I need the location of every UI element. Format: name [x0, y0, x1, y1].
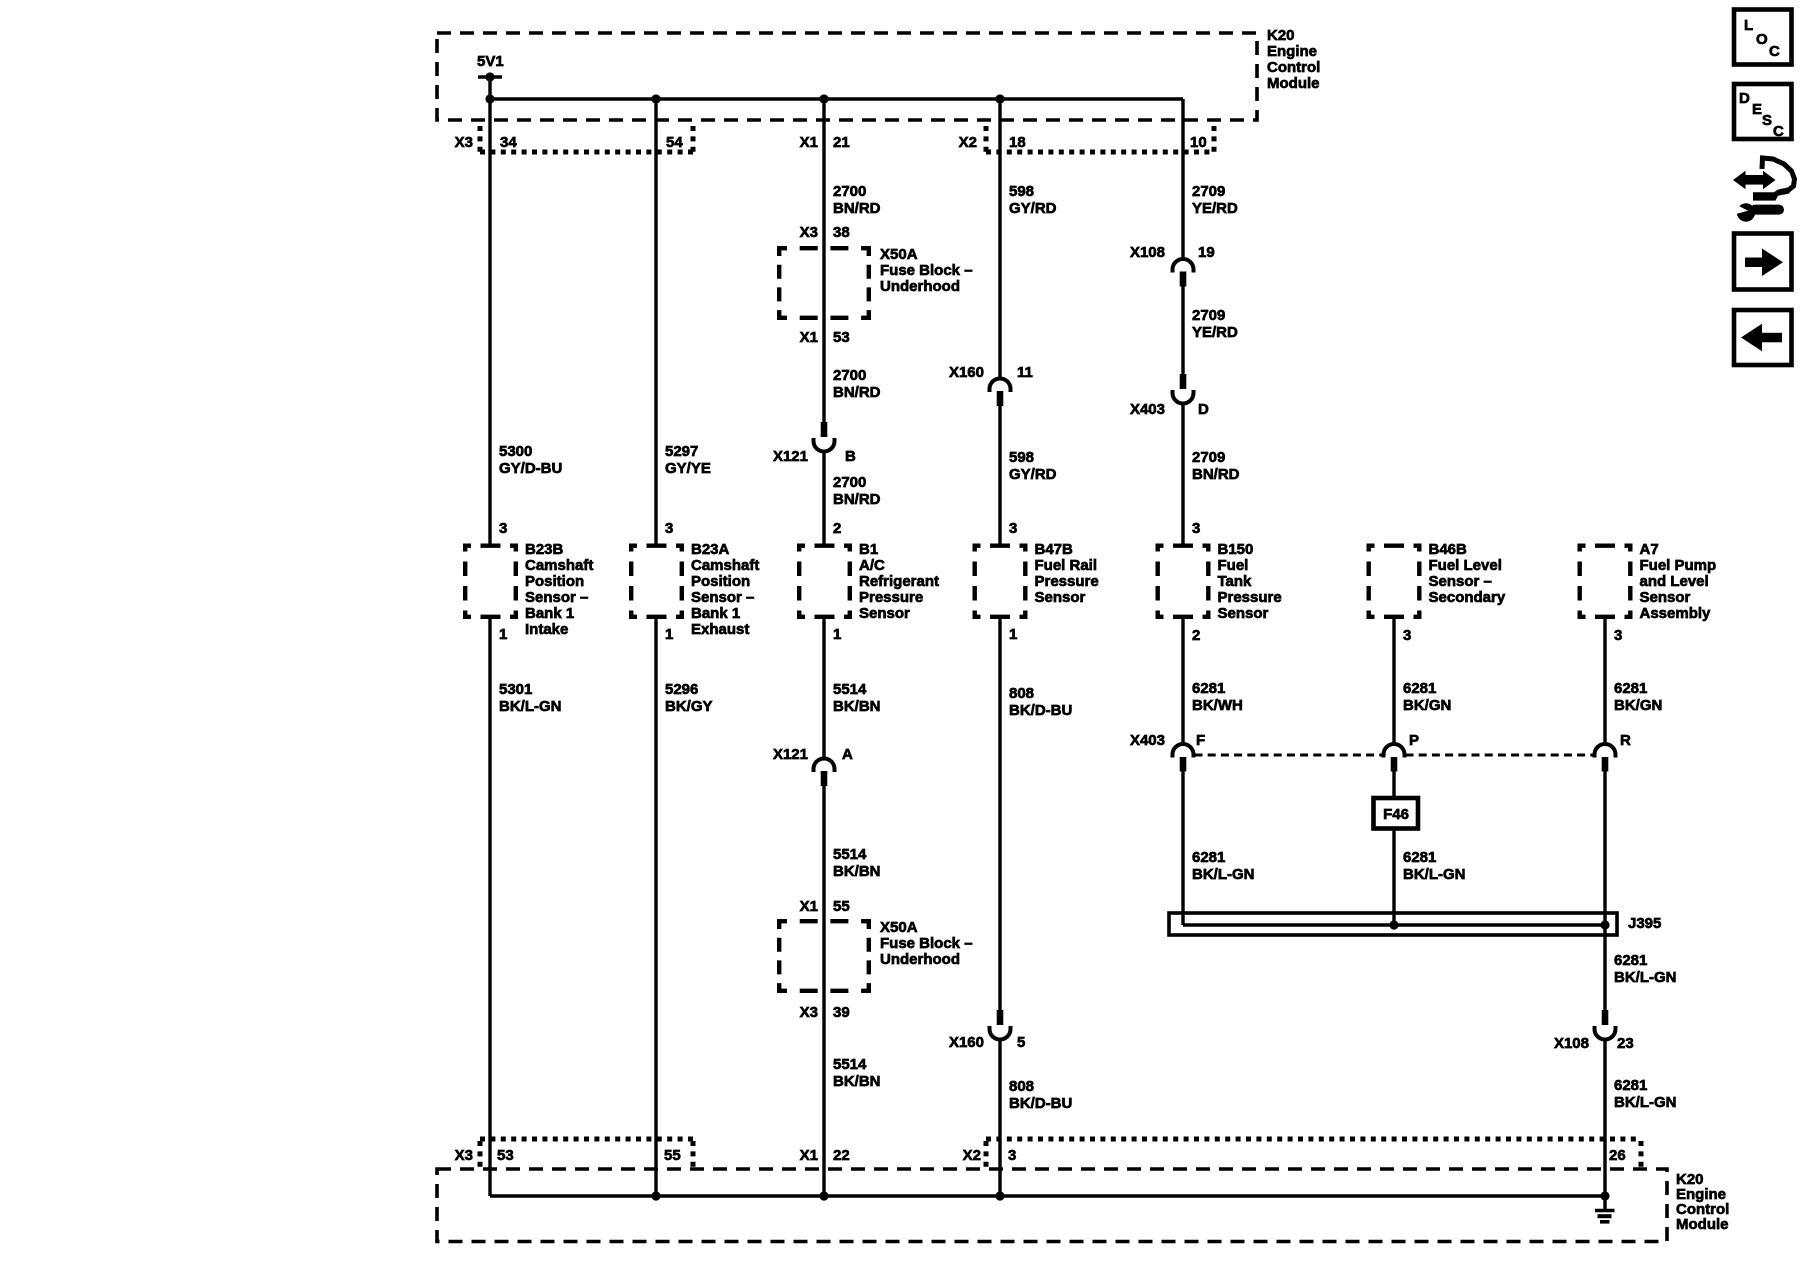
- svg-text:2709: 2709: [1192, 449, 1225, 466]
- svg-text:D: D: [1198, 401, 1209, 418]
- svg-text:23: 23: [1617, 1035, 1634, 1052]
- svg-text:39: 39: [833, 1004, 850, 1021]
- svg-text:5300: 5300: [499, 443, 532, 460]
- wire 3: circuit 5514 BK/BN (X121-A to X50A fuse block): [800, 786, 881, 919]
- svg-text:Bank 1: Bank 1: [691, 605, 740, 622]
- icon DESC button: [1734, 84, 1792, 140]
- svg-text:X160: X160: [949, 1034, 984, 1051]
- sensor B1 A/C refrigerant pressure sensor: [797, 541, 939, 622]
- svg-text:X3: X3: [455, 134, 473, 151]
- svg-text:Exhaust: Exhaust: [691, 621, 749, 638]
- connector X2 pin box (top row, pins 18 / 10): [959, 126, 1214, 152]
- svg-text:Underhood: Underhood: [880, 951, 960, 968]
- svg-text:Intake: Intake: [525, 621, 568, 638]
- svg-text:22: 22: [833, 1147, 850, 1164]
- svg-text:O: O: [1756, 31, 1768, 48]
- svg-text:BK/BN: BK/BN: [833, 698, 881, 715]
- wire 6: segment X403-P to fuse F46: [1392, 771, 1395, 798]
- svg-text:598: 598: [1009, 183, 1034, 200]
- svg-text:X2: X2: [959, 134, 977, 151]
- svg-text:GY/D-BU: GY/D-BU: [499, 460, 562, 477]
- wire 3 lower: circuit 5514 BK/BN (B1 pin 1 to X121-A): [824, 619, 881, 759]
- svg-text:3: 3: [1403, 627, 1411, 644]
- svg-text:6281: 6281: [1403, 849, 1436, 866]
- fuse block X50A - underhood (upper): [777, 246, 973, 401]
- connector X1 pin 21 (top row): [800, 134, 850, 151]
- svg-text:GY/YE: GY/YE: [665, 460, 711, 477]
- svg-text:X403: X403: [1130, 401, 1165, 418]
- svg-text:B: B: [845, 448, 856, 465]
- junction at wire 1: [485, 94, 494, 103]
- junction at wire 7 (bottom): [1600, 1191, 1609, 1200]
- svg-text:2700: 2700: [833, 367, 866, 384]
- svg-text:34: 34: [500, 134, 517, 151]
- svg-text:18: 18: [1009, 134, 1026, 151]
- in-line connector X403 pin F: [1130, 732, 1205, 772]
- svg-text:F: F: [1196, 732, 1205, 749]
- ground: [1595, 1196, 1615, 1222]
- dashed harness link X403 F-P: [1195, 754, 1383, 757]
- svg-text:Fuel Level: Fuel Level: [1429, 557, 1502, 574]
- svg-text:X121: X121: [773, 746, 808, 763]
- svg-text:B1: B1: [859, 541, 878, 558]
- svg-text:6281: 6281: [1614, 1077, 1647, 1094]
- svg-text:54: 54: [666, 134, 683, 151]
- svg-text:808: 808: [1009, 1078, 1034, 1095]
- svg-text:1: 1: [665, 626, 673, 643]
- junction at wire 3: [819, 94, 828, 103]
- svg-text:Assembly: Assembly: [1640, 605, 1712, 622]
- svg-text:X1: X1: [800, 898, 818, 915]
- svg-text:E: E: [1752, 101, 1762, 118]
- svg-text:3: 3: [1192, 520, 1200, 537]
- svg-text:R: R: [1620, 732, 1631, 749]
- svg-text:X50A: X50A: [880, 246, 918, 263]
- svg-text:YE/RD: YE/RD: [1192, 324, 1238, 341]
- junction at wire 3 (bottom): [819, 1191, 828, 1200]
- svg-text:Sensor: Sensor: [859, 605, 910, 622]
- svg-text:L: L: [1744, 17, 1753, 34]
- svg-text:BK/L-GN: BK/L-GN: [499, 698, 562, 715]
- wire 1 lower: circuit 5301 BK/L-GN (B23B pin 1 to module X3-53): [490, 619, 562, 1196]
- svg-text:Sensor –: Sensor –: [1429, 573, 1492, 590]
- icon wiring tools (arrow and wrench): [1733, 158, 1795, 222]
- connector X2 pin box (bottom row, pins 3 / 26): [963, 1139, 1641, 1167]
- svg-text:Control: Control: [1267, 59, 1320, 76]
- fuse F46: [1374, 798, 1419, 829]
- svg-text:BK/L-GN: BK/L-GN: [1614, 1094, 1677, 1111]
- svg-text:BK/D-BU: BK/D-BU: [1009, 702, 1072, 719]
- wire 7: circuit 6281 BK/GN (A7 pin 3 to X403-R): [1605, 619, 1662, 744]
- wire 5: circuit 2709 YE/RD (X108-19 to X403-D): [1183, 287, 1238, 375]
- svg-text:2709: 2709: [1192, 183, 1225, 200]
- svg-text:Module: Module: [1267, 75, 1320, 92]
- icon forward arrow button: [1734, 234, 1792, 290]
- svg-text:BK/GY: BK/GY: [665, 698, 713, 715]
- svg-text:5: 5: [1017, 1034, 1025, 1051]
- svg-text:53: 53: [833, 329, 850, 346]
- in-line connector X403 pin D: [1130, 374, 1209, 418]
- svg-text:Secondary: Secondary: [1429, 589, 1506, 606]
- svg-text:21: 21: [833, 134, 850, 151]
- wire 3 upper: circuit 2700 BN/RD (module X1-21 to X50A fuse block): [800, 99, 881, 422]
- wire 7 bottom: circuit 6281 BK/L-GN (X108-23 to module X2-26): [1605, 1040, 1677, 1197]
- svg-text:BK/BN: BK/BN: [833, 1073, 881, 1090]
- svg-text:BN/RD: BN/RD: [833, 384, 881, 401]
- svg-text:38: 38: [833, 224, 850, 241]
- svg-text:Refrigerant: Refrigerant: [859, 573, 939, 590]
- svg-text:Fuse Block –: Fuse Block –: [880, 935, 973, 952]
- svg-text:K20: K20: [1267, 27, 1295, 44]
- svg-text:55: 55: [664, 1147, 681, 1164]
- svg-text:5V1: 5V1: [477, 53, 504, 70]
- splice pack J395: [1169, 913, 1661, 935]
- in-line connector X160 pin 11: [949, 364, 1033, 406]
- engine control module K20 (top box): [437, 27, 1320, 120]
- icon back arrow button: [1734, 310, 1792, 365]
- in-line connector X121 pin A: [773, 746, 853, 786]
- svg-text:B47B: B47B: [1035, 541, 1074, 558]
- svg-text:A7: A7: [1640, 541, 1659, 558]
- svg-text:2: 2: [1192, 627, 1200, 644]
- svg-text:A: A: [842, 746, 853, 763]
- icon LOC button: [1734, 10, 1792, 65]
- svg-text:X1: X1: [800, 134, 818, 151]
- svg-text:BK/D-BU: BK/D-BU: [1009, 1095, 1072, 1112]
- wire 3 bottom: circuit 5514 BK/BN (X50A X3-39 to module X1-22): [800, 919, 881, 1196]
- sensor assembly A7 fuel pump and level sensor: [1578, 541, 1717, 622]
- svg-text:Underhood: Underhood: [880, 278, 960, 295]
- fuse block X50A - underhood (lower): [777, 919, 973, 993]
- svg-text:55: 55: [833, 898, 850, 915]
- sensor B46B fuel level sensor secondary: [1367, 541, 1506, 619]
- svg-text:Bank 1: Bank 1: [525, 605, 574, 622]
- svg-text:11: 11: [1017, 364, 1033, 381]
- svg-text:5301: 5301: [499, 681, 532, 698]
- wire: ground bus inside module: [490, 1194, 1605, 1198]
- svg-text:F46: F46: [1383, 806, 1409, 823]
- svg-text:2700: 2700: [833, 183, 866, 200]
- wire 1: circuit 5300 GY/D-BU (module X3-34 to B23B pin 3): [490, 99, 562, 544]
- svg-text:X121: X121: [773, 448, 808, 465]
- svg-text:3: 3: [1008, 1147, 1016, 1164]
- svg-text:2: 2: [833, 520, 841, 537]
- svg-text:6281: 6281: [1614, 680, 1647, 697]
- svg-text:B46B: B46B: [1429, 541, 1468, 558]
- svg-text:10: 10: [1190, 134, 1207, 151]
- svg-text:X160: X160: [949, 364, 984, 381]
- svg-text:Module: Module: [1676, 1216, 1729, 1233]
- svg-text:5514: 5514: [833, 1056, 867, 1073]
- svg-text:X3: X3: [800, 1004, 818, 1021]
- svg-text:Pressure: Pressure: [1035, 573, 1099, 590]
- svg-text:Sensor: Sensor: [1035, 589, 1086, 606]
- svg-text:and Level: and Level: [1640, 573, 1709, 590]
- svg-text:X2: X2: [963, 1147, 981, 1164]
- wire 4 lower: circuit 808 BK/D-BU (B47B pin 1 to X160-5): [1000, 619, 1072, 1010]
- svg-text:BK/WH: BK/WH: [1192, 697, 1243, 714]
- svg-text:598: 598: [1009, 449, 1034, 466]
- svg-text:X108: X108: [1554, 1035, 1589, 1052]
- svg-text:GY/RD: GY/RD: [1009, 200, 1057, 217]
- wire 6: circuit 6281 BK/GN (B46B pin 3 to X403-P): [1394, 619, 1451, 744]
- svg-text:3: 3: [499, 520, 507, 537]
- svg-text:Pressure: Pressure: [859, 589, 923, 606]
- svg-text:2700: 2700: [833, 474, 866, 491]
- svg-text:6281: 6281: [1192, 680, 1225, 697]
- svg-text:BN/RD: BN/RD: [833, 200, 881, 217]
- svg-text:J395: J395: [1628, 915, 1661, 932]
- svg-text:B23A: B23A: [691, 541, 730, 558]
- sensor B23A camshaft position sensor bank 1 exhaust: [629, 541, 759, 638]
- wire 2: circuit 5297 GY/YE (module X3-54 to B23A pin 3): [656, 99, 711, 544]
- wire 7: circuit 6281 BK/L-GN (J395 to X108-23): [1614, 952, 1677, 986]
- wire 2 lower: circuit 5296 BK/GY (B23A pin 1 to module X3-55): [656, 619, 713, 1196]
- svg-text:Sensor: Sensor: [1218, 605, 1269, 622]
- svg-text:BK/GN: BK/GN: [1403, 697, 1451, 714]
- svg-text:Tank: Tank: [1218, 573, 1253, 590]
- svg-text:Engine: Engine: [1267, 43, 1317, 60]
- svg-text:1: 1: [1009, 626, 1017, 643]
- svg-text:BK/GN: BK/GN: [1614, 697, 1662, 714]
- svg-text:X108: X108: [1130, 244, 1165, 261]
- svg-text:Camshaft: Camshaft: [525, 557, 593, 574]
- wire: 5V1 bus inside module: [490, 97, 1183, 100]
- connector X3 pin box (bottom row, pins 53 / 55): [455, 1139, 693, 1167]
- svg-text:5514: 5514: [833, 681, 867, 698]
- svg-text:B23B: B23B: [525, 541, 564, 558]
- in-line connector X160 pin 5: [949, 1010, 1025, 1051]
- svg-text:6281: 6281: [1614, 952, 1647, 969]
- svg-text:5514: 5514: [833, 846, 867, 863]
- svg-text:BK/BN: BK/BN: [833, 863, 881, 880]
- junction at wire 2 (bottom): [651, 1191, 660, 1200]
- junction at wire 2: [651, 94, 660, 103]
- wire 4 upper: circuit 598 GY/RD (module X2-18 to X160-11): [1000, 99, 1057, 379]
- svg-text:YE/RD: YE/RD: [1192, 200, 1238, 217]
- svg-text:1: 1: [499, 626, 507, 643]
- in-line connector X108 pin 19: [1130, 244, 1215, 287]
- svg-text:6281: 6281: [1403, 680, 1436, 697]
- svg-text:C: C: [1769, 43, 1780, 60]
- junction at wire 4: [995, 94, 1004, 103]
- svg-text:19: 19: [1198, 244, 1215, 261]
- svg-text:Position: Position: [691, 573, 750, 590]
- junction at wire 4 (bottom): [995, 1191, 1004, 1200]
- wire 5 upper: circuit 2709 YE/RD (module X2-10 to X108-19): [1183, 99, 1238, 259]
- svg-text:P: P: [1409, 732, 1419, 749]
- svg-text:X1: X1: [800, 329, 818, 346]
- engine control module K20 (bottom box): [437, 1169, 1729, 1242]
- sensor B150 fuel tank pressure sensor: [1156, 541, 1282, 622]
- svg-text:53: 53: [497, 1147, 514, 1164]
- dashed harness link X403 P-R: [1406, 754, 1594, 757]
- svg-text:Sensor –: Sensor –: [525, 589, 588, 606]
- wire 5 lower: circuit 6281 BK/WH (B150 pin 2 to X403-F): [1183, 619, 1243, 744]
- svg-text:BK/L-GN: BK/L-GN: [1614, 969, 1677, 986]
- wire 4: circuit 598 GY/RD (X160-11 to B47B pin 3): [1000, 406, 1057, 544]
- svg-text:Sensor –: Sensor –: [691, 589, 754, 606]
- svg-text:Pressure: Pressure: [1218, 589, 1282, 606]
- sensor B23B camshaft position sensor bank 1 intake: [463, 541, 593, 638]
- svg-text:6281: 6281: [1192, 849, 1225, 866]
- svg-text:BK/L-GN: BK/L-GN: [1403, 866, 1466, 883]
- svg-text:Fuel Rail: Fuel Rail: [1035, 557, 1098, 574]
- node 5V1 (5 volt reference): [477, 53, 504, 99]
- sensor B47B fuel rail pressure sensor: [973, 541, 1099, 619]
- svg-text:B150: B150: [1218, 541, 1254, 558]
- svg-text:GY/RD: GY/RD: [1009, 466, 1057, 483]
- svg-text:3: 3: [665, 520, 673, 537]
- svg-text:BN/RD: BN/RD: [1192, 466, 1240, 483]
- svg-text:3: 3: [1614, 627, 1622, 644]
- svg-text:C: C: [1773, 123, 1784, 140]
- svg-text:Fuel: Fuel: [1218, 557, 1249, 574]
- svg-text:BN/RD: BN/RD: [833, 491, 881, 508]
- svg-text:26: 26: [1609, 1147, 1626, 1164]
- svg-text:1: 1: [833, 626, 841, 643]
- wire 5: circuit 2709 BN/RD (X403-D to B150 pin 3): [1183, 404, 1240, 545]
- svg-text:2709: 2709: [1192, 307, 1225, 324]
- svg-text:X3: X3: [455, 1147, 473, 1164]
- svg-text:Position: Position: [525, 573, 584, 590]
- wire 3: circuit 2700 BN/RD (X121-B to B1 pin 2): [824, 452, 881, 545]
- in-line connector X108 pin 23: [1554, 1010, 1634, 1052]
- svg-text:X50A: X50A: [880, 919, 918, 936]
- svg-text:Camshaft: Camshaft: [691, 557, 759, 574]
- wire 5: circuit 6281 BK/L-GN (X403-F to splice J395): [1183, 771, 1255, 925]
- wire 6: circuit 6281 BK/L-GN (F46 to splice J395): [1394, 829, 1466, 926]
- svg-text:5296: 5296: [665, 681, 698, 698]
- svg-text:A/C: A/C: [859, 557, 885, 574]
- wire 7: segment X403-R through J395: [1603, 771, 1606, 1010]
- svg-text:3: 3: [1009, 520, 1017, 537]
- svg-text:Sensor: Sensor: [1640, 589, 1691, 606]
- svg-text:D: D: [1739, 90, 1750, 107]
- in-line connector X403 pin R: [1595, 732, 1632, 772]
- svg-text:Fuel Pump: Fuel Pump: [1640, 557, 1717, 574]
- wire 4 bottom: circuit 808 BK/D-BU (X160-5 to module X2-3): [1000, 1040, 1072, 1197]
- svg-text:BK/L-GN: BK/L-GN: [1192, 866, 1255, 883]
- in-line connector X403 pin P: [1384, 732, 1420, 772]
- connector X3 pin box (top row, pins 34 / 54): [455, 126, 693, 152]
- svg-text:X403: X403: [1130, 732, 1165, 749]
- svg-text:S: S: [1762, 112, 1772, 129]
- svg-text:X3: X3: [800, 224, 818, 241]
- svg-text:X1: X1: [800, 1147, 818, 1164]
- svg-text:808: 808: [1009, 685, 1034, 702]
- in-line connector X121 pin B: [773, 422, 856, 465]
- connector X1 pin 22 (bottom row): [800, 1147, 850, 1164]
- svg-text:5297: 5297: [665, 443, 698, 460]
- svg-text:Fuse Block –: Fuse Block –: [880, 262, 973, 279]
